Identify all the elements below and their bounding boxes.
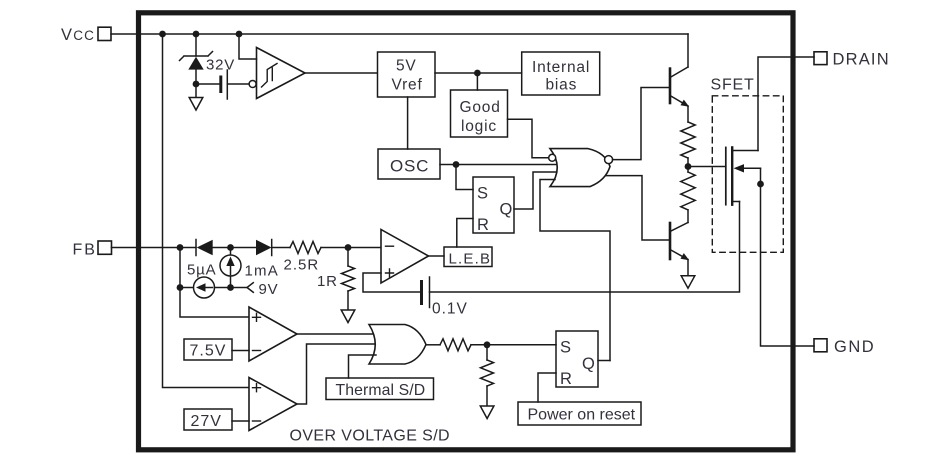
svg-text:GND: GND [834,338,875,356]
block 27V [184,409,232,430]
node VCC rail junction 3 [236,31,243,38]
current source 5uA [180,262,247,299]
wire VCC pin to rail [111,33,163,35]
pin DRAIN [814,51,890,69]
latch U1 S-R (PWM) [473,177,514,234]
svg-text:SFET: SFET [711,77,755,94]
pin FB [73,241,112,259]
ground below bottom driver [681,276,695,288]
node diode junction [227,244,234,251]
wire junction down to Good logic [476,73,478,90]
diode D1 (points left) [196,240,256,256]
diode D2 (points right) [256,240,290,256]
svg-text:OVER VOLTAGE S/D: OVER VOLTAGE S/D [290,428,451,445]
wire OR output [426,344,440,346]
svg-text:9V: 9V [259,281,279,298]
resistor driver upper [681,122,695,158]
svg-text:27V: 27V [191,413,222,430]
svg-text:L.E.B: L.E.B [449,251,492,268]
block Good logic [451,90,508,137]
block 7.5V [184,339,232,360]
svg-text:Vref: Vref [392,77,423,94]
OR gate shutdown [369,325,426,365]
svg-text:Good: Good [460,99,501,116]
op-amp FB comparator [381,230,429,284]
wire NOR bottom input from protection latch [540,180,610,361]
svg-text:bias: bias [546,77,578,94]
NOR gate driver [549,149,613,187]
op-amp OVP comparator 1 [249,307,297,361]
wire NOR lower output to bottom driver base [606,176,670,240]
node 5uA left junction [177,284,184,291]
pin VCC [61,26,111,44]
wire MOSFET source to GND pin [761,168,815,346]
resistor 2.5R [284,242,322,274]
svg-text:S: S [560,339,572,357]
wire latch R to L.E.B [457,219,473,248]
svg-text:0.1V: 0.1V [432,301,468,318]
op-amp OVP comparator 2 [249,378,297,431]
wire comparator 2 output to OR gate [297,344,374,404]
node VCC rail junction 1 [159,31,166,38]
wire MOSFET drain to DRAIN pin [758,57,814,151]
wire OSC junction to latch S [456,165,473,190]
block Power on reset [518,402,641,425]
IC boundary border [139,13,794,450]
wire FB node down to 7.5V comparator [180,248,249,318]
wire gate node to MOSFET gate [688,166,726,168]
resistor after OR gate [440,339,471,351]
svg-text:7.5V: 7.5V [190,343,227,360]
pin GND [814,338,875,356]
svg-text:32V: 32V [206,57,235,74]
wire sense source to current sense line [430,202,740,293]
svg-text:DRAIN: DRAIN [833,51,890,69]
SFET dashed box [712,96,783,253]
svg-text:1mA: 1mA [245,263,279,280]
node zener-battery junction [193,81,200,88]
svg-text:OSC: OSC [390,157,429,176]
block OSC [378,149,440,179]
wire Vref to Internal bias [435,72,522,74]
wire latch Q to NOR [598,360,610,362]
svg-text:Internal: Internal [532,59,590,76]
node gate drive junction [685,163,692,170]
node sense junction [757,181,764,188]
latch U2 S-R (protection) [556,331,598,388]
block 5V Vref [378,52,436,97]
battery 0.1V [422,277,468,318]
node FB divider junction [345,244,352,251]
svg-text:Power on reset: Power on reset [528,407,636,424]
node 9V arrow [247,281,278,298]
node shutdown junction [484,341,491,348]
wire 7.5V to comparator - input [232,350,249,352]
svg-text:VCC: VCC [61,26,95,44]
wire Thermal S/D to OR gate [349,355,377,378]
wire comparator + input to 0.1V battery [363,273,420,292]
node FB junction [177,244,184,251]
wire latch Q to NOR input [514,172,558,209]
svg-text:R: R [560,370,573,388]
svg-text:Thermal S/D: Thermal S/D [336,382,426,399]
wire FB line [112,247,197,249]
block Internal bias [522,52,600,95]
svg-text:2.5R: 2.5R [284,257,320,274]
block L.E.B [444,247,492,268]
wire comparator output to L.E.B [429,255,445,257]
svg-text:Q: Q [582,355,596,373]
block Thermal S/D [326,378,434,400]
svg-text:R: R [477,216,490,234]
svg-text:logic: logic [461,118,497,135]
resistor 1R [317,248,355,311]
wire VCC top rail [163,33,689,35]
wire VCC vertical down to 27V comparator [163,34,250,388]
wire Power on reset to latch R [538,373,556,402]
ground below zener [189,98,203,111]
zener diode 32V [180,34,236,98]
transistor Q1 top driver [670,34,689,122]
node Vref-bias junction [474,70,481,77]
node OSC output junction [453,161,460,168]
node VCC rail junction 2 [193,31,200,38]
wire Good logic to NOR input (inverted) [508,119,549,158]
svg-text:1R: 1R [317,273,338,290]
battery (UVLO reference) [196,70,249,99]
transistor M1 SenseFET [726,147,761,204]
wire 27V to comparator - input [232,420,249,422]
current source 1mA [220,248,279,288]
wire NOR output to top driver base [613,88,671,160]
svg-text:S: S [477,185,489,203]
node 5uA right junction [227,284,234,291]
transistor Q2 bottom driver [670,223,689,276]
wire Vref to OSC [407,97,409,149]
resistor below shutdown node [481,345,494,406]
svg-text:FB: FB [73,242,97,259]
op-amp UVLO hysteresis comparator [239,34,377,99]
wire OSC to NOR gate [440,164,558,166]
wire comparator 1 output to OR gate [297,333,373,335]
ground below resistor [480,406,494,419]
ground below 1R [341,310,355,323]
svg-text:5µA: 5µA [187,262,216,279]
resistor driver lower [681,172,695,210]
svg-text:5V: 5V [396,58,417,75]
svg-text:Q: Q [500,201,514,219]
